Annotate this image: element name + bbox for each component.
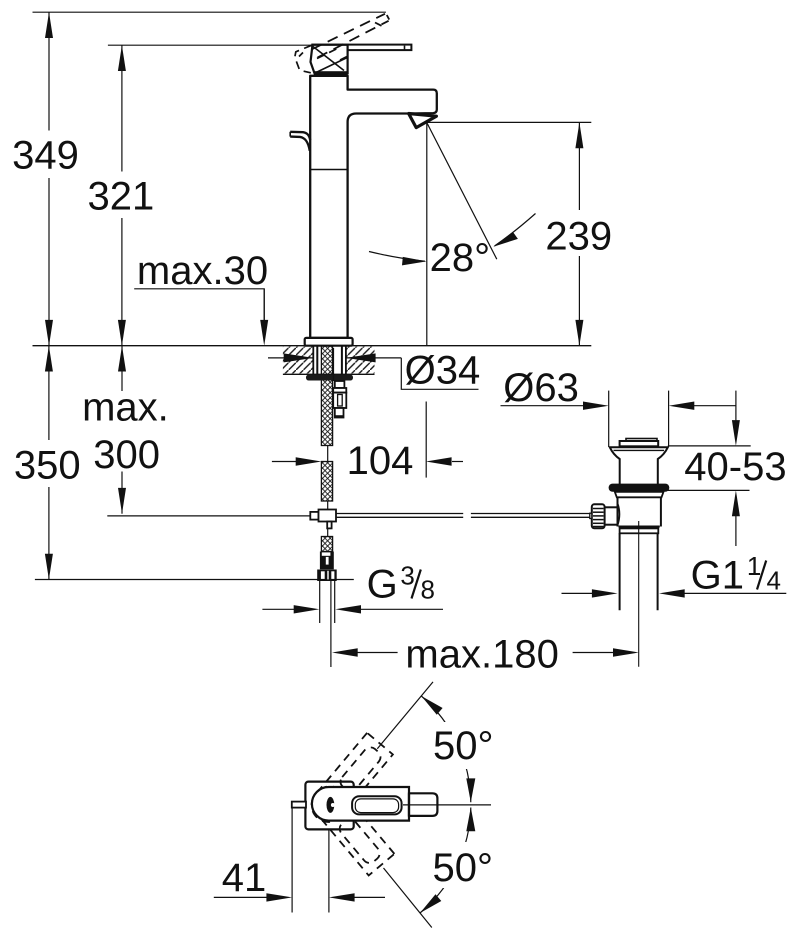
svg-text:max.: max.: [82, 386, 169, 430]
spout outlet tip: [409, 114, 437, 128]
label diameter 34 with leader: [401, 349, 480, 393]
handle logo mark: [327, 797, 335, 813]
countertop line: [33, 345, 592, 347]
top view handle dashed rotated up 50: [305, 733, 393, 829]
dimension max300 vertical line: [118, 346, 126, 514]
reference line spout outlet (239 top): [427, 121, 591, 123]
reference line top of lever (349 top): [33, 11, 386, 13]
angle 28 left leader arrow: [369, 252, 427, 266]
hose tail extension lines: [320, 581, 335, 667]
braided hose upper section: [321, 346, 332, 446]
knurled knob: [590, 504, 605, 528]
svg-text:239: 239: [545, 214, 612, 258]
svg-text:Ø63: Ø63: [503, 366, 579, 410]
handle slot inner: [355, 799, 398, 813]
label max.30 with leader: [134, 249, 268, 346]
counter cross-section hatch left: [283, 346, 313, 374]
dimension 40-53 upper: [668, 391, 751, 446]
drain collar: [615, 492, 664, 498]
top view escutcheon square: [305, 782, 353, 830]
top view handle solid: [312, 787, 438, 821]
svg-text:50°: 50°: [433, 846, 494, 890]
handle base dashed position: [295, 45, 347, 73]
pop-up knob on body: [290, 132, 310, 151]
label 50 degrees lower: [427, 842, 494, 890]
hose centerline break: [327, 446, 329, 462]
svg-text:50°: 50°: [433, 724, 494, 768]
counter cross-section hatch right: [346, 346, 375, 374]
hose connector block: [320, 552, 334, 570]
svg-text:350: 350: [14, 444, 81, 488]
locknut under counter: [306, 375, 353, 381]
dimension arrows diameter 34: [268, 353, 401, 362]
spout stub top view: [292, 802, 306, 808]
pop-up horizontal rod right segment: [471, 514, 592, 518]
svg-text:349: 349: [12, 134, 79, 178]
dimension 104 arrows: [272, 457, 463, 465]
dimension 40-53 lower: [668, 490, 750, 546]
body joint line: [310, 169, 347, 171]
diagonal 50 down: [384, 868, 432, 928]
dimension 41 extension lines: [292, 808, 329, 913]
handle centerline: [403, 804, 491, 806]
lever bar solid: [312, 45, 411, 51]
drain O-ring seal: [609, 484, 670, 492]
pop-up horizontal rod left segment: [336, 514, 463, 518]
svg-text:40-53: 40-53: [684, 445, 786, 489]
svg-text:G: G: [367, 563, 398, 607]
dimension 239 vertical line: [575, 122, 583, 345]
diameter 63 extension lines: [609, 391, 669, 447]
base flange: [305, 338, 353, 346]
G3/8 nut: [317, 570, 337, 582]
reference line max300 bottom: [107, 515, 310, 517]
svg-text:1: 1: [747, 551, 761, 581]
angle 28 right leader arrow: [493, 214, 535, 247]
svg-text:300: 300: [93, 433, 160, 477]
dimension 321 vertical line: [118, 45, 126, 346]
top view handle dashed rotated down 50: [306, 779, 394, 875]
drain centerline: [638, 521, 640, 667]
dimension G1 1/4 arrows: [562, 589, 787, 597]
hose centerline to tee: [327, 501, 329, 510]
pop-up rod tee: [310, 510, 336, 529]
svg-text:max.180: max.180: [405, 633, 558, 677]
hose centerline below tee: [327, 528, 329, 536]
dimension max180 line and arrows: [332, 648, 639, 656]
reference line lever pivot (321 top): [108, 44, 313, 46]
dimension 41 arrows: [214, 893, 385, 901]
reference line 350 bottom: [35, 579, 354, 581]
svg-text:8: 8: [421, 575, 435, 605]
drain plug cap: [620, 439, 659, 447]
drain body: [618, 497, 661, 526]
angle 28 spout axis diagonal: [427, 123, 497, 259]
label max 300: [82, 386, 169, 478]
svg-text:G1: G1: [691, 554, 744, 598]
dimension 104 right extension line: [425, 402, 427, 478]
drain tailpipe: [620, 533, 658, 610]
label 50 degrees upper: [428, 722, 494, 769]
arc dimension 50 lower: [420, 808, 475, 914]
knob neck: [605, 503, 620, 526]
shank walls in counter hole: [317, 346, 342, 375]
label G1 1/4: [691, 551, 781, 598]
lever dashed open position: [312, 14, 390, 58]
label G 3/8: [367, 561, 435, 607]
cartridge black band: [314, 71, 348, 76]
svg-text:41: 41: [222, 856, 266, 900]
counter bottom line: [283, 373, 375, 375]
braided hose middle section: [321, 462, 332, 502]
drain coupling ring: [620, 528, 659, 533]
handle slot outer: [352, 796, 402, 814]
dimension G3/8 arrows: [262, 605, 443, 613]
svg-text:104: 104: [347, 439, 414, 483]
diagonal 50 up: [377, 682, 433, 749]
svg-text:321: 321: [88, 175, 155, 219]
dimension diameter 63 line and arrows: [501, 402, 736, 410]
drain funnel flange: [610, 447, 668, 484]
dimension 350 vertical line below counter: [45, 346, 53, 580]
pop-up rod upper guide: [333, 348, 346, 418]
dimension 349 vertical line: [45, 12, 53, 346]
faucet body and spout arm: [310, 76, 437, 338]
svg-text:Ø34: Ø34: [405, 349, 481, 393]
lever handle base solid: [311, 45, 348, 74]
braided hose lower section: [321, 537, 332, 552]
svg-text:4: 4: [767, 566, 781, 596]
svg-text:max.30: max.30: [137, 249, 268, 293]
arc dimension 50 upper: [421, 696, 475, 802]
svg-text:3: 3: [400, 561, 414, 591]
angle 28 vertical reference: [426, 123, 428, 346]
svg-text:28°: 28°: [430, 236, 491, 280]
